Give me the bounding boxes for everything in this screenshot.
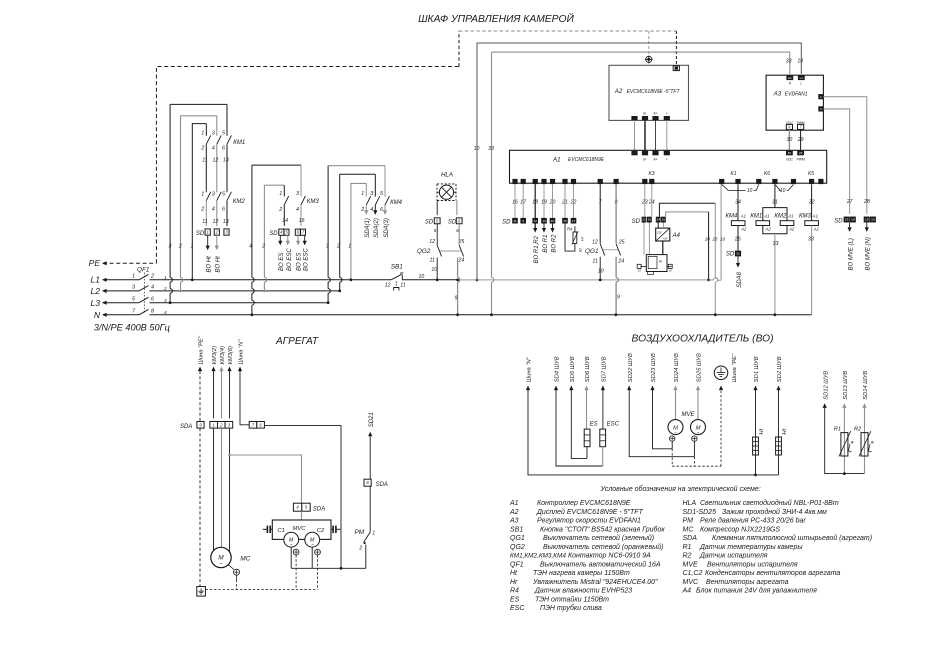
svg-text:QG2: QG2	[510, 544, 525, 551]
svg-text:A2: A2	[614, 88, 623, 95]
svg-text:Ht: Ht	[510, 570, 518, 577]
svg-text:24: 24	[458, 257, 465, 263]
terminal SD6-SD7	[295, 229, 300, 235]
svg-text:9: 9	[455, 295, 458, 301]
svg-text:SD4 ШУВ: SD4 ШУВ	[555, 356, 561, 382]
svg-text:1: 1	[201, 191, 204, 197]
svg-text:ШКАФ УПРАВЛЕНИЯ КАМЕРОЙ: ШКАФ УПРАВЛЕНИЯ КАМЕРОЙ	[418, 12, 574, 25]
KM2 pole 1-2	[206, 192, 210, 201]
terminal SDA 8	[364, 479, 371, 486]
wire 25 feed to A4	[659, 203, 715, 216]
svg-text:КМ1,КМ2,КМ3,КМ4: КМ1,КМ2,КМ3,КМ4	[510, 553, 566, 560]
svg-text:Шина "PE": Шина "PE"	[199, 335, 205, 364]
svg-text:U1: U1	[788, 76, 792, 80]
svg-text:20: 20	[668, 269, 672, 273]
svg-text:SD2 ШУВ: SD2 ШУВ	[777, 356, 783, 382]
svg-text:ВОЗДУХООХЛАДИТЕЛЬ (ВО): ВОЗДУХООХЛАДИТЕЛЬ (ВО)	[632, 334, 774, 345]
svg-text:15: 15	[563, 219, 567, 223]
wire: dashed drop to A2 top terminal	[675, 31, 677, 66]
svg-text:SDA: SDA	[683, 535, 698, 542]
wire: dashed riser at 459	[458, 31, 460, 67]
wire BO ES b	[297, 235, 299, 241]
A1 top pins from A2	[631, 151, 637, 156]
svg-text:Дисплей EVCMC618N9E - 5"TFT: Дисплей EVCMC618N9E - 5"TFT	[536, 508, 644, 516]
svg-text:BO R2: BO R2	[552, 234, 558, 253]
svg-text:КМ3(2): КМ3(2)	[212, 346, 218, 365]
svg-text:PWM: PWM	[796, 158, 804, 162]
svg-text:SD: SD	[425, 219, 434, 225]
svg-text:SDA8: SDA8	[737, 271, 743, 287]
KM2 pole 3-4	[217, 192, 221, 201]
svg-text:EVCMC618N9E -5"TFT: EVCMC618N9E -5"TFT	[627, 89, 681, 95]
svg-text:19: 19	[871, 218, 875, 222]
QF1 pole 5-6	[103, 302, 139, 304]
svg-text:A1: A1	[763, 214, 769, 219]
svg-text:29: 29	[799, 151, 803, 155]
svg-text:Датчик испарителя: Датчик испарителя	[699, 553, 768, 560]
svg-text:MVE: MVE	[681, 412, 695, 418]
svg-text:27: 27	[846, 199, 854, 205]
svg-text:3: 3	[370, 191, 373, 197]
wires SD to Hr block	[643, 223, 645, 255]
wire SDA45 to MVC	[301, 511, 303, 520]
wire BO Ht left	[207, 235, 209, 245]
svg-text:25: 25	[458, 239, 465, 245]
KM1 pole 1-2	[205, 124, 207, 136]
wire bottom bus (agregat)	[291, 567, 366, 569]
wire L2 bus	[169, 290, 340, 292]
wire 33 coils KM1 KM2	[763, 226, 787, 234]
QF1 pole 7-8	[103, 314, 139, 316]
svg-text:A2: A2	[740, 226, 747, 231]
svg-text:+: +	[666, 158, 668, 162]
svg-text:BO ES: BO ES	[279, 253, 285, 271]
svg-text:ES: ES	[590, 422, 598, 428]
svg-text:Компрессор NJX2219GS: Компрессор NJX2219GS	[700, 526, 780, 533]
svg-text:Реле давления РС-433 20/26 bar: Реле давления РС-433 20/26 bar	[700, 517, 806, 525]
svg-text:6: 6	[151, 297, 154, 303]
wire riser 2 to KM1 pole3	[180, 116, 182, 278]
svg-text:Выключатель сетевой (оранжевый: Выключатель сетевой (оранжевый)	[543, 543, 663, 551]
svg-text:24: 24	[656, 218, 660, 222]
wire riser 2 to KM3 pole1	[263, 185, 265, 277]
svg-text:24: 24	[617, 258, 624, 264]
svg-text:EVCMC618N9E: EVCMC618N9E	[568, 157, 605, 163]
svg-text:12: 12	[213, 158, 219, 164]
svg-text:+: +	[666, 112, 668, 116]
svg-text:Кнопка "СТОП" BS542 красная Гр: Кнопка "СТОП" BS542 красная Грибок	[540, 525, 665, 533]
wire 32 KM3 coil	[811, 184, 813, 220]
svg-text:12: 12	[213, 219, 219, 225]
wire BO ESC b	[304, 235, 306, 241]
terminal SD 19/19 (BO MVE N)	[864, 217, 870, 223]
svg-text:ESC: ESC	[607, 422, 620, 428]
svg-text:11: 11	[202, 158, 207, 164]
wire 10 QG2 left down	[436, 258, 438, 280]
wire 8	[615, 184, 617, 243]
svg-text:SD23 ШУВ: SD23 ШУВ	[651, 353, 657, 382]
svg-text:R2: R2	[683, 553, 692, 560]
svg-text:A1: A1	[552, 156, 561, 163]
wire 33 KM3 to N	[811, 226, 813, 315]
svg-text:MVC: MVC	[293, 526, 307, 532]
wire BO R1,R2	[534, 224, 536, 229]
svg-text:11: 11	[592, 258, 597, 264]
svg-text:SDA(1): SDA(1)	[365, 218, 371, 238]
KM3 pole 3-4	[300, 165, 302, 196]
svg-text:QG2: QG2	[417, 248, 431, 255]
svg-text:L1: L1	[800, 76, 804, 80]
svg-text:10: 10	[705, 237, 711, 242]
svg-text:25: 25	[711, 237, 718, 242]
svg-text:SDA: SDA	[180, 424, 192, 430]
svg-text:11: 11	[400, 282, 405, 288]
MVE earth left	[670, 436, 675, 441]
svg-text:3: 3	[212, 130, 215, 136]
wire Шина PE (BO)	[719, 386, 723, 391]
svg-text:SDA: SDA	[376, 482, 388, 488]
svg-text:КМ3(6): КМ3(6)	[228, 346, 234, 365]
wire dashed earth bus	[205, 589, 317, 591]
svg-text:КМ2: КМ2	[774, 214, 787, 220]
svg-text:SD21: SD21	[369, 412, 375, 427]
svg-text:КМ1: КМ1	[233, 140, 245, 146]
A1 top pins VDC PWM	[786, 151, 793, 156]
wire PWM 29	[800, 129, 802, 150]
svg-text:19: 19	[845, 218, 849, 222]
fan unit MVC C1 C2	[272, 520, 331, 539]
svg-text:15: 15	[299, 218, 305, 224]
svg-text:A2: A2	[788, 226, 795, 231]
svg-text:SD14 ШУВ: SD14 ШУВ	[863, 371, 869, 400]
svg-text:10: 10	[720, 237, 726, 242]
A1 bottom pins	[512, 179, 517, 184]
svg-text:SD6 ШУВ: SD6 ШУВ	[585, 356, 591, 382]
svg-text:23: 23	[642, 218, 646, 222]
svg-text:Регулятор скорости EVDFAN1: Регулятор скорости EVDFAN1	[537, 518, 641, 525]
svg-text:30: 30	[787, 137, 793, 143]
svg-text:Условные обозначения на электр: Условные обозначения на электрической сх…	[600, 485, 761, 493]
wire riser 1 to KM1 pole1	[192, 124, 206, 280]
svg-text:BO ESC: BO ESC	[287, 248, 293, 271]
svg-text:Датчик влажности EVHP523: Датчик влажности EVHP523	[534, 588, 632, 595]
svg-text:1: 1	[361, 191, 364, 197]
svg-text:КМ4: КМ4	[390, 200, 403, 206]
wire branch to MVC	[230, 455, 302, 503]
controller A1	[510, 150, 827, 183]
svg-text:C2: C2	[317, 528, 325, 534]
humidifier Hr block	[646, 255, 667, 272]
svg-text:КМ3: КМ3	[799, 214, 812, 220]
svg-text:~: ~	[220, 562, 223, 568]
svg-text:19: 19	[851, 218, 855, 222]
QF1 pole 1-2	[103, 279, 139, 281]
wire riser 2 to KM4 pole3	[339, 174, 341, 277]
QF1 pole 3-4	[103, 290, 139, 292]
svg-text:Ю: Ю	[578, 248, 583, 252]
svg-text:N: N	[94, 310, 101, 320]
svg-text:12: 12	[592, 240, 598, 246]
svg-text:1: 1	[279, 191, 282, 197]
wire riser 1 to KM4 pole1	[351, 183, 366, 279]
wire BO Ht right	[216, 235, 218, 245]
svg-text:MVE: MVE	[683, 561, 699, 568]
svg-text:C1,C2: C1,C2	[683, 570, 703, 577]
MVC earths	[293, 549, 299, 555]
compressor MC	[211, 547, 231, 567]
svg-text:10: 10	[747, 188, 753, 194]
svg-text:4: 4	[212, 206, 215, 212]
svg-text:Выключатель автоматический 16А: Выключатель автоматический 16А	[540, 560, 661, 568]
terminal SDA 4-5	[293, 503, 301, 511]
wire BO R1	[543, 224, 545, 229]
svg-text:11: 11	[430, 257, 435, 263]
svg-text:5: 5	[434, 228, 437, 234]
svg-text:A4: A4	[682, 588, 692, 595]
svg-text:РМ: РМ	[683, 518, 694, 525]
svg-text:3/N/PE 400В 50Гц: 3/N/PE 400В 50Гц	[94, 323, 170, 333]
svg-text:R4: R4	[567, 226, 573, 231]
wire A4 to Hr	[662, 241, 664, 255]
svg-text:SD1-SD25: SD1-SD25	[683, 509, 717, 516]
svg-text:EVDFAN1: EVDFAN1	[785, 91, 808, 97]
svg-text:3: 3	[820, 107, 822, 111]
svg-text:SD: SD	[502, 219, 511, 225]
svg-text:BO R1,R2: BO R1,R2	[534, 235, 540, 263]
svg-text:SDA(3): SDA(3)	[384, 218, 390, 238]
svg-text:2: 2	[150, 274, 154, 280]
wire 10 top run	[477, 43, 801, 280]
svg-text:PM: PM	[354, 529, 364, 536]
svg-text:АГРЕГАТ: АГРЕГАТ	[275, 336, 319, 347]
svg-text:BO ESC: BO ESC	[304, 248, 310, 271]
svg-text:BO Ht: BO Ht	[215, 256, 221, 273]
svg-text:Ht: Ht	[759, 428, 765, 434]
svg-text:Ht: Ht	[782, 428, 788, 434]
svg-text:SD13 ШУВ: SD13 ШУВ	[843, 371, 849, 400]
wire riser 4 to KM3 pole3	[251, 165, 253, 277]
svg-text:26: 26	[734, 237, 741, 243]
svg-text:L1: L1	[91, 275, 101, 285]
svg-text:L: L	[800, 82, 802, 86]
svg-text:Увлажнитель Mistral "924EHUCE4: Увлажнитель Mistral "924EHUCE4.00"	[532, 579, 658, 586]
svg-text:10: 10	[598, 268, 604, 274]
KM1 pole 5-6	[226, 104, 228, 135]
wire riser 3 to KM1 pole5	[169, 104, 171, 277]
KM3 pole 1-2	[283, 185, 285, 196]
svg-text:Вентиляторы агрегата: Вентиляторы агрегата	[706, 579, 789, 586]
svg-text:2: 2	[278, 207, 282, 213]
wire 27	[823, 109, 849, 214]
svg-text:2: 2	[178, 244, 182, 250]
svg-text:4: 4	[370, 207, 373, 213]
svg-text:A3: A3	[509, 518, 519, 525]
svg-text:25: 25	[618, 240, 625, 246]
wire 10 gray segment to K1	[458, 279, 709, 281]
svg-text:10: 10	[797, 59, 803, 65]
controller A3	[766, 75, 823, 130]
terminal SD3	[224, 229, 229, 235]
svg-text:12: 12	[533, 219, 537, 223]
wire VDC 30	[788, 129, 790, 150]
svg-text:SD1 ШУВ: SD1 ШУВ	[754, 356, 760, 382]
svg-text:11: 11	[202, 219, 207, 225]
svg-text:2: 2	[163, 286, 167, 291]
svg-text:VDC: VDC	[786, 158, 794, 162]
svg-text:13: 13	[223, 219, 229, 225]
terminal SDA 1-2-3	[210, 422, 218, 429]
svg-text:SD: SD	[196, 231, 205, 237]
svg-text:4: 4	[249, 244, 252, 250]
svg-text:SD5 ШУВ: SD5 ШУВ	[570, 356, 576, 382]
svg-text:QF1: QF1	[510, 561, 524, 568]
svg-text:28: 28	[863, 199, 870, 205]
svg-text:QF1: QF1	[137, 266, 150, 273]
svg-text:Hr: Hr	[510, 579, 518, 586]
svg-text:3: 3	[326, 244, 329, 250]
wire lamp left	[436, 201, 438, 216]
svg-text:A1: A1	[787, 214, 793, 219]
terminal SD2	[214, 229, 219, 235]
svg-text:16: 16	[551, 219, 555, 223]
svg-text:10: 10	[474, 146, 480, 152]
power supply A4	[656, 228, 670, 241]
KM4 pole 5-6	[384, 166, 386, 197]
svg-text:КМ2: КМ2	[233, 199, 246, 205]
svg-text:SDA: SDA	[313, 507, 325, 513]
svg-text:КМ1: КМ1	[750, 214, 762, 220]
svg-text:A+: A+	[652, 158, 657, 162]
wire 10 from K1 down	[720, 184, 722, 280]
svg-text:ПЭН трубки слива: ПЭН трубки слива	[540, 604, 602, 612]
wires A2 to A1	[634, 120, 636, 150]
svg-text:2: 2	[200, 145, 204, 151]
wire BO ESC a	[287, 235, 289, 241]
wire 23 to Hr	[644, 184, 646, 217]
svg-text:SD24 ШУВ: SD24 ШУВ	[674, 353, 680, 382]
wire BO R2	[552, 224, 554, 229]
svg-text:Контактор NC6-0910 9A: Контактор NC6-0910 9A	[568, 553, 651, 560]
wire riser 3 to KM4 pole5	[327, 166, 329, 278]
svg-text:SD22 ШУВ: SD22 ШУВ	[628, 353, 634, 382]
MVE earth right	[692, 436, 697, 441]
svg-text:HLA: HLA	[441, 172, 453, 179]
svg-text:10: 10	[780, 188, 786, 194]
wire N to PM bus	[264, 426, 341, 569]
svg-text:SD7 ШУВ: SD7 ШУВ	[602, 356, 608, 382]
svg-text:A1: A1	[740, 214, 746, 219]
svg-text:K5: K5	[808, 171, 814, 177]
svg-text:A1: A1	[812, 214, 818, 219]
svg-text:QG1: QG1	[585, 248, 599, 255]
svg-text:Светильник светодиодный NBL-P0: Светильник светодиодный NBL-P01-8Вт	[700, 499, 839, 507]
svg-text:33: 33	[808, 237, 814, 243]
svg-text:4: 4	[151, 285, 154, 291]
svg-text:Датчик температуры камеры: Датчик температуры камеры	[699, 544, 803, 551]
capacitor C2	[331, 528, 333, 530]
svg-text:КМ4: КМ4	[725, 214, 738, 220]
svg-text:10: 10	[662, 218, 666, 222]
QF1 mechanical link	[143, 273, 145, 313]
wire 33 top run	[491, 52, 493, 277]
svg-text:2: 2	[261, 244, 265, 250]
svg-text:230: 230	[656, 230, 662, 234]
terminal SDA 7-6	[249, 422, 257, 429]
wire 10 feed to A4	[666, 212, 709, 217]
svg-text:Вентиляторы испарителя: Вентиляторы испарителя	[707, 561, 798, 568]
svg-text:K1: K1	[730, 171, 736, 177]
svg-text:14: 14	[542, 219, 546, 223]
wire BO MVE (L)	[849, 223, 851, 228]
svg-text:M: M	[218, 555, 224, 562]
svg-text:BO MVE (L): BO MVE (L)	[848, 238, 854, 270]
svg-text:МС: МС	[683, 526, 695, 533]
svg-text:A2: A2	[765, 226, 772, 231]
svg-text:33: 33	[488, 146, 494, 152]
svg-text:R1: R1	[683, 544, 692, 551]
svg-text:R4: R4	[510, 588, 519, 595]
svg-text:R1: R1	[834, 427, 841, 433]
svg-text:10: 10	[419, 274, 425, 280]
wire N bus	[169, 314, 812, 316]
svg-text:Контроллер EVCMC618N9E: Контроллер EVCMC618N9E	[537, 500, 631, 507]
svg-text:Шина "N": Шина "N"	[239, 339, 245, 365]
svg-text:3: 3	[169, 244, 172, 250]
svg-text:8: 8	[151, 309, 154, 315]
svg-text:SD25 ШУВ: SD25 ШУВ	[697, 353, 703, 382]
svg-text:1: 1	[213, 422, 215, 427]
KM4 pole 1-2	[365, 183, 367, 196]
svg-text:3: 3	[212, 191, 215, 197]
terminal SD 24/10	[656, 217, 661, 223]
svg-text:SD12 ШУВ: SD12 ШУВ	[823, 371, 829, 400]
svg-text:Шина "N": Шина "N"	[527, 356, 533, 382]
wire L1 bus	[169, 279, 392, 281]
svg-text:1: 1	[348, 244, 351, 250]
svg-text:SB1: SB1	[391, 263, 404, 270]
svg-text:SDA(2): SDA(2)	[374, 218, 380, 238]
svg-text:КМ3: КМ3	[307, 199, 320, 205]
display A2	[609, 65, 689, 120]
A3 right pin 2	[818, 94, 823, 99]
svg-text:BO MVE (N): BO MVE (N)	[866, 237, 872, 270]
relay K1 contact links	[722, 184, 746, 190]
svg-text:19: 19	[865, 218, 869, 222]
svg-text:2: 2	[336, 244, 340, 250]
KM2 pole 5-6	[227, 192, 231, 201]
svg-text:A4: A4	[672, 233, 681, 239]
svg-text:ES: ES	[510, 596, 520, 603]
svg-text:L2: L2	[91, 286, 101, 296]
svg-text:Выключатель сетевой (зеленый): Выключатель сетевой (зеленый)	[543, 534, 654, 542]
wire 26	[737, 226, 739, 251]
wire 34 KM4 coil	[737, 184, 739, 220]
svg-text:33: 33	[786, 59, 792, 65]
KM4 pole 3-4	[374, 174, 376, 196]
svg-text:SD: SD	[726, 252, 735, 258]
wire 24 to Hr	[651, 184, 653, 217]
svg-text:Клеммник пятиполюсной штырьево: Клеммник пятиполюсной штырьевой (агрегат…	[712, 534, 872, 542]
earth circle symbol	[714, 366, 728, 380]
svg-text:10: 10	[431, 267, 437, 273]
ground symbol (agregat)	[197, 587, 206, 597]
svg-text:9: 9	[617, 294, 620, 300]
MC earth	[228, 565, 234, 570]
svg-text:Hr: Hr	[580, 236, 585, 241]
wire: dashed drop to A2 earth	[648, 31, 650, 56]
svg-text:6: 6	[222, 145, 225, 151]
svg-text:SD: SD	[632, 219, 641, 225]
